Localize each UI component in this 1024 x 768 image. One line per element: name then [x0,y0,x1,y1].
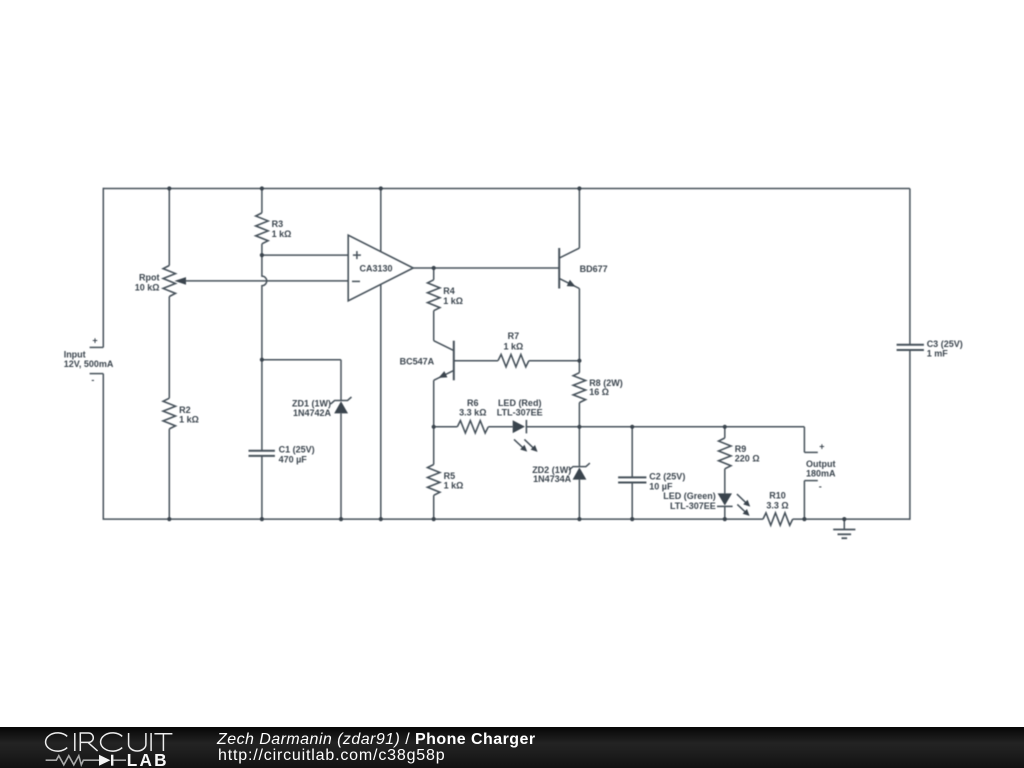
svg-text:C3 (25V): C3 (25V) [927,339,963,349]
svg-text:16 Ω: 16 Ω [589,387,609,397]
svg-text:R5: R5 [444,471,456,481]
svg-text:+: + [819,442,824,452]
svg-text:1 kΩ: 1 kΩ [444,481,464,491]
svg-text:LAB: LAB [127,750,169,768]
svg-text:220 Ω: 220 Ω [735,454,760,464]
svg-text:LED (Red): LED (Red) [498,398,542,408]
svg-text:1N4734A: 1N4734A [533,474,572,484]
svg-text:R4: R4 [443,286,455,296]
svg-text:3.3 kΩ: 3.3 kΩ [459,408,486,418]
svg-text:470 µF: 470 µF [279,454,308,464]
svg-text:3.3 Ω: 3.3 Ω [766,501,788,511]
svg-text:1 mF: 1 mF [927,348,949,358]
svg-text:BC547A: BC547A [400,356,435,366]
svg-text:R7: R7 [508,331,520,341]
svg-text:Output: Output [806,459,836,469]
svg-text:1 kΩ: 1 kΩ [179,415,199,425]
svg-text:R6: R6 [467,398,479,408]
svg-text:+: + [92,336,97,346]
svg-text:C1 (25V): C1 (25V) [279,444,315,454]
svg-text:Rpot: Rpot [139,273,160,283]
svg-text:12V, 500mA: 12V, 500mA [64,359,114,369]
svg-text:-: - [91,375,94,385]
svg-text:-: - [819,482,822,492]
svg-text:R3: R3 [272,219,284,229]
svg-text:CA3130: CA3130 [359,263,392,273]
svg-text:1N4742A: 1N4742A [293,408,332,418]
svg-text:C2 (25V): C2 (25V) [649,471,685,481]
svg-text:1 kΩ: 1 kΩ [443,296,463,306]
svg-text:LTL-307EE: LTL-307EE [497,408,543,418]
svg-text:Input: Input [64,349,86,359]
svg-text:1 kΩ: 1 kΩ [504,341,524,351]
svg-text:180mA: 180mA [806,468,836,478]
svg-text:LED (Green): LED (Green) [663,491,716,501]
svg-text:LTL-307EE: LTL-307EE [670,501,716,511]
svg-text:BD677: BD677 [580,264,608,274]
svg-text:1 kΩ: 1 kΩ [272,229,292,239]
svg-text:10 kΩ: 10 kΩ [135,283,160,293]
svg-text:R10: R10 [769,490,786,500]
